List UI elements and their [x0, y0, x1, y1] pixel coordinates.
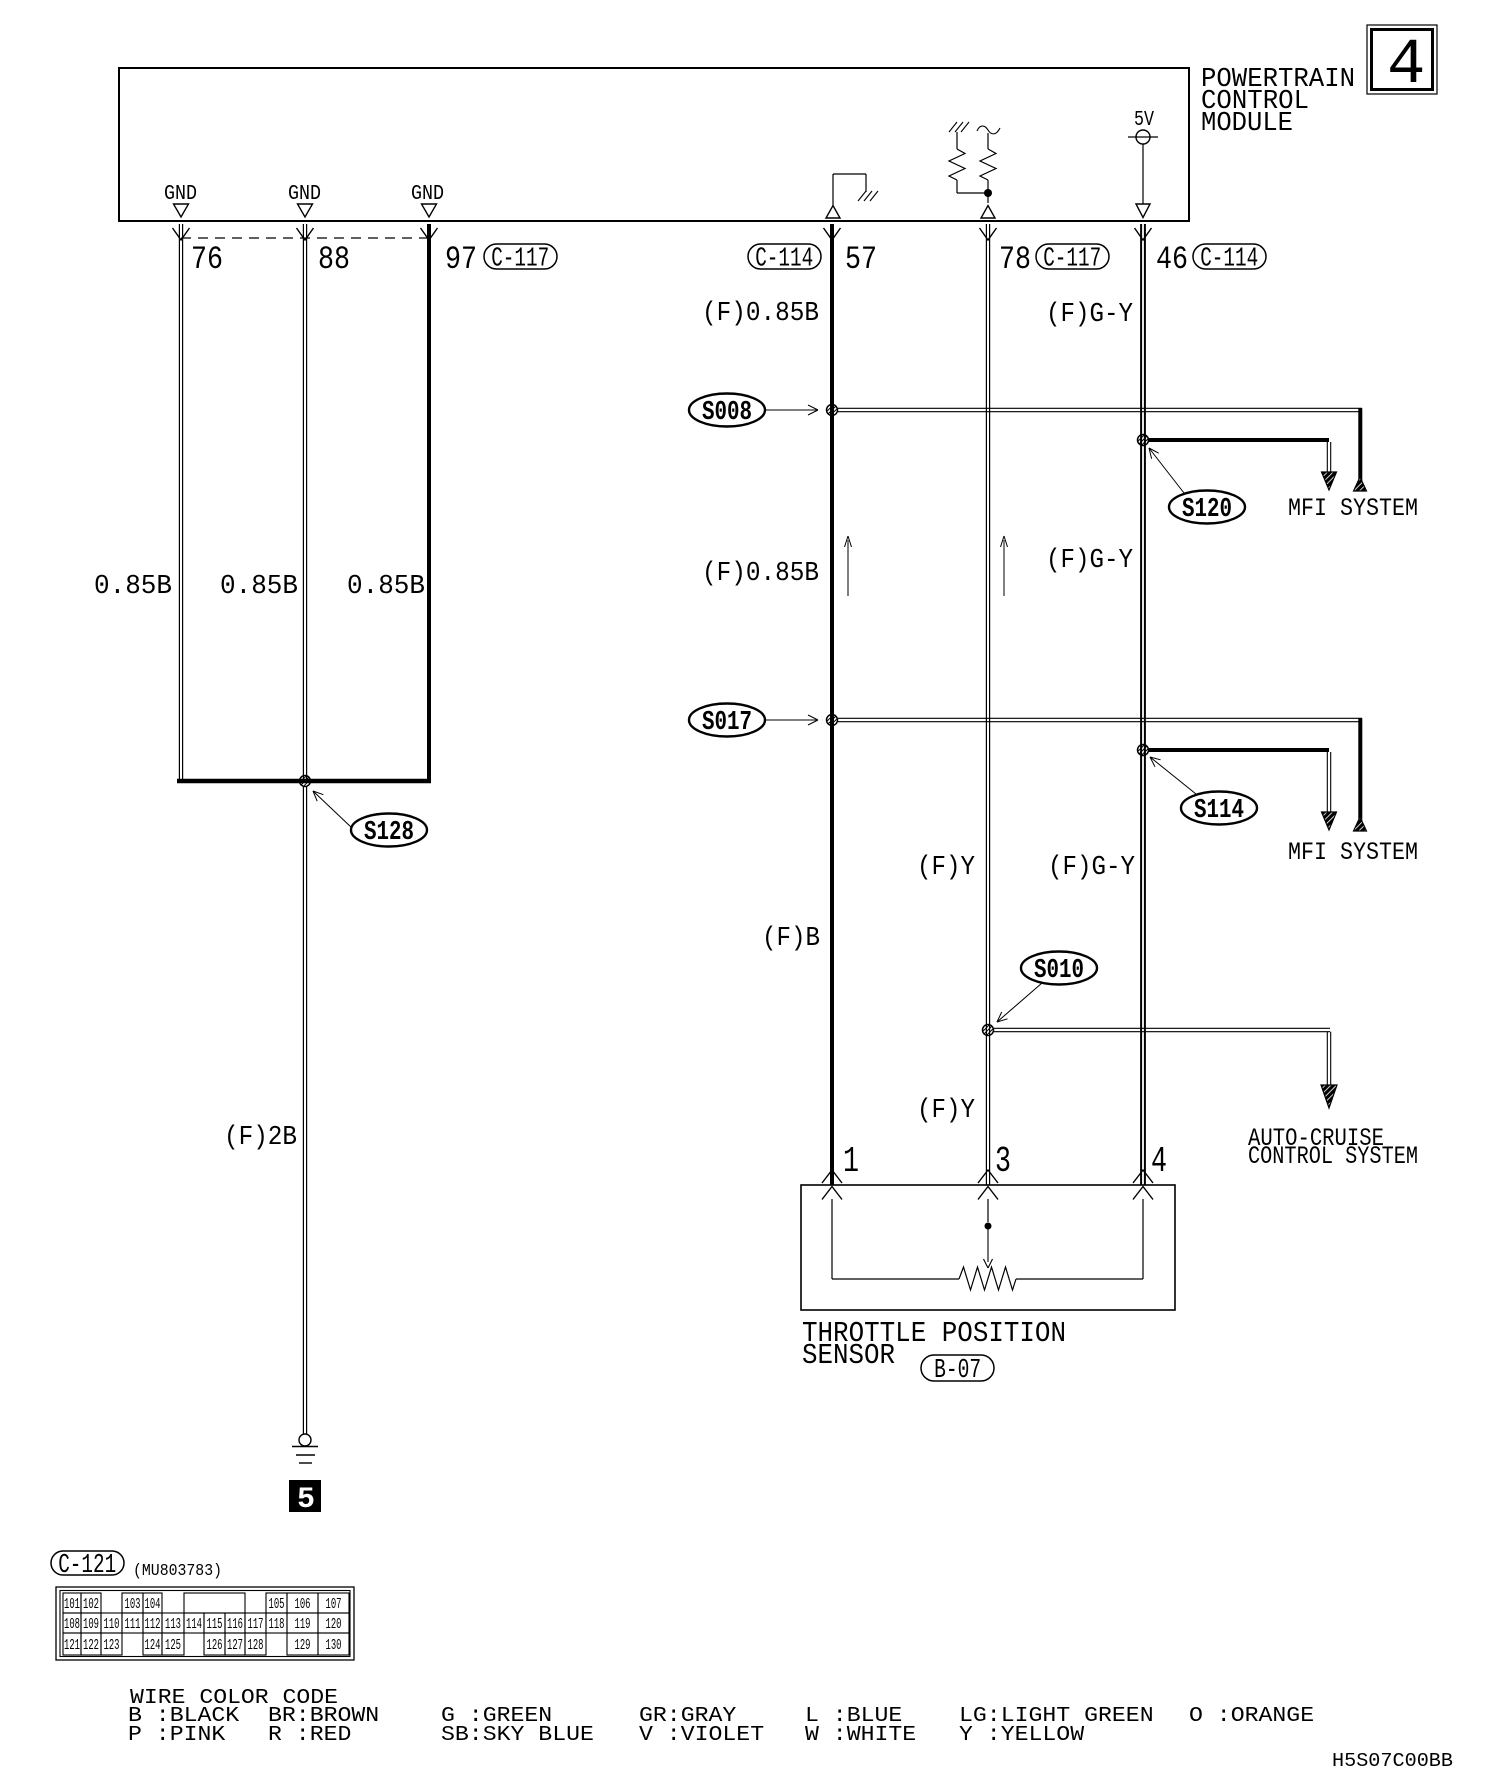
GND triangle at x=305 — [298, 204, 313, 217]
drop S114 — [1326, 752, 1328, 812]
svg-text:C-117: C-117 — [1043, 245, 1101, 275]
svg-text:121: 121 — [64, 1638, 80, 1654]
svg-text:S010: S010 — [1034, 956, 1084, 986]
svg-text:V :VIOLET: V :VIOLET — [639, 1724, 764, 1747]
svg-text:MFI SYSTEM: MFI SYSTEM — [1288, 494, 1418, 523]
svg-text:109: 109 — [83, 1617, 99, 1633]
svg-text:111: 111 — [125, 1617, 141, 1633]
svg-text:(F)G-Y: (F)G-Y — [1046, 546, 1133, 576]
svg-text:120: 120 — [326, 1617, 342, 1633]
TPS internal wire pin3 — [987, 1199, 989, 1222]
wire from S017 to MFI — [838, 717, 1362, 719]
svg-text:GND: GND — [164, 183, 197, 206]
svg-text:76: 76 — [191, 241, 223, 278]
svg-text:S017: S017 — [702, 708, 752, 738]
GND triangle at x=181 — [174, 204, 189, 217]
svg-text:SENSOR: SENSOR — [802, 1339, 895, 1372]
svg-text:108: 108 — [64, 1617, 80, 1633]
splice label S114 — [1181, 792, 1257, 825]
svg-text:1: 1 — [843, 1141, 859, 1182]
S128 leader arrow — [313, 791, 352, 828]
svg-text:R :RED: R :RED — [268, 1724, 351, 1747]
svg-text:119: 119 — [295, 1617, 311, 1633]
svg-text:57: 57 — [845, 241, 877, 278]
splice S010 junction — [983, 1025, 994, 1036]
svg-text:0.85B: 0.85B — [220, 572, 298, 602]
page ref box 5 — [289, 1480, 321, 1512]
svg-text:GND: GND — [411, 183, 444, 206]
svg-text:124: 124 — [145, 1638, 161, 1654]
drop to MFI system — [1358, 408, 1362, 491]
svg-text:116: 116 — [227, 1617, 243, 1633]
svg-text:(F)B: (F)B — [762, 924, 820, 954]
svg-text:106: 106 — [295, 1597, 311, 1613]
svg-text:(MU803783): (MU803783) — [133, 1561, 222, 1580]
ground bus wire — [177, 779, 431, 784]
splice S114 junction — [1138, 745, 1149, 756]
connector symbol at x=181 — [173, 228, 190, 240]
svg-text:97: 97 — [445, 241, 477, 278]
splice label S008 — [689, 394, 765, 427]
splice S120 junction — [1138, 435, 1149, 446]
svg-text:W :WHITE: W :WHITE — [805, 1724, 916, 1747]
page number box 4 — [1367, 25, 1437, 94]
svg-text:102: 102 — [83, 1597, 99, 1613]
svg-text:S120: S120 — [1182, 495, 1232, 525]
svg-text:118: 118 — [269, 1617, 285, 1633]
junction dot — [984, 189, 992, 197]
direction arrow near wire 57 — [847, 540, 849, 596]
internal resistor R-right — [977, 126, 1000, 134]
internal resistor R-left (pullup) — [949, 122, 957, 132]
svg-text:S008: S008 — [702, 398, 752, 428]
TPS wiper stem — [987, 1229, 989, 1262]
svg-text:CONTROL SYSTEM: CONTROL SYSTEM — [1248, 1142, 1418, 1171]
wire S120 to MFI — [1148, 438, 1329, 442]
splice label S128 — [351, 814, 427, 847]
connector symbol at x=429 — [421, 228, 438, 240]
svg-text:105: 105 — [269, 1597, 285, 1613]
direction arrow near wire 78 — [1003, 540, 1005, 596]
wire S010 to auto-cruise — [994, 1027, 1330, 1029]
svg-text:122: 122 — [83, 1638, 99, 1654]
svg-text:5V: 5V — [1134, 109, 1154, 132]
svg-text:114: 114 — [186, 1617, 202, 1633]
svg-text:125: 125 — [165, 1638, 181, 1654]
arrow from MFI system — [1354, 477, 1367, 491]
connector symbol at x=305 — [297, 228, 314, 240]
svg-text:3: 3 — [995, 1141, 1011, 1182]
svg-text:5: 5 — [297, 1483, 315, 1517]
wire pin88 0.85B — [302, 224, 304, 779]
svg-text:101: 101 — [64, 1597, 80, 1613]
splice S128 — [300, 776, 311, 787]
svg-text:128: 128 — [248, 1638, 264, 1654]
svg-text:117: 117 — [248, 1617, 264, 1633]
connector C-117 — [484, 244, 557, 269]
TPS internal wire pin1 — [831, 1199, 833, 1279]
wire from S008 to MFI — [838, 407, 1362, 409]
connector symbol at x=832 — [824, 228, 841, 240]
TPS connector caret below x=832 — [822, 1187, 842, 1200]
S120 leader arrow — [1149, 448, 1184, 493]
TPS junction dot — [985, 1223, 992, 1230]
svg-text:B-07: B-07 — [934, 1356, 981, 1386]
S017 leader arrow — [765, 719, 818, 721]
svg-text:GND: GND — [288, 183, 321, 206]
svg-text:107: 107 — [326, 1597, 342, 1613]
svg-text:130: 130 — [326, 1638, 342, 1654]
svg-text:Y :YELLOW: Y :YELLOW — [959, 1724, 1085, 1747]
svg-text:S114: S114 — [1194, 796, 1244, 826]
arrow to MFI system — [1322, 472, 1337, 490]
internal ground symbol (pin 57) — [826, 206, 840, 219]
powertrain control module box — [119, 68, 1189, 221]
dashed connector line — [181, 237, 429, 239]
TPS resistor — [832, 1278, 959, 1280]
connector C-121 — [51, 1551, 124, 1575]
connector symbol at x=1143 — [1135, 228, 1152, 240]
svg-text:78: 78 — [999, 241, 1031, 278]
svg-text:O :ORANGE: O :ORANGE — [1189, 1705, 1314, 1728]
svg-text:113: 113 — [165, 1617, 181, 1633]
drop to auto-cruise — [1326, 1032, 1328, 1085]
wire S114 to MFI — [1148, 748, 1329, 752]
svg-text:112: 112 — [145, 1617, 161, 1633]
svg-text:4: 4 — [1387, 30, 1425, 102]
svg-text:(F)G-Y: (F)G-Y — [1048, 853, 1135, 883]
svg-text:C-121: C-121 — [58, 1551, 116, 1581]
throttle position sensor box — [801, 1185, 1175, 1310]
TPS connector caret above x=1143 — [1133, 1170, 1153, 1183]
svg-text:(F)G-Y: (F)G-Y — [1046, 300, 1133, 330]
TPS connector caret below x=1143 — [1133, 1187, 1153, 1200]
connector C-114 — [1193, 244, 1266, 269]
svg-text:115: 115 — [207, 1617, 223, 1633]
wire pin57 (F)B thick — [830, 224, 834, 1185]
S114 leader arrow — [1150, 757, 1196, 794]
connector C-114 — [748, 244, 821, 269]
svg-text:C-114: C-114 — [1200, 245, 1258, 275]
TPS connector caret above x=988 — [978, 1170, 998, 1183]
svg-text:(F)Y: (F)Y — [917, 853, 975, 883]
connector B-07 — [921, 1355, 994, 1381]
svg-text:P :PINK: P :PINK — [128, 1724, 226, 1747]
triangle pin 78 internal — [981, 206, 995, 219]
splice S017 junction — [827, 715, 838, 726]
svg-text:S128: S128 — [364, 818, 414, 848]
svg-text:0.85B: 0.85B — [347, 572, 425, 602]
svg-text:(F)0.85B: (F)0.85B — [702, 299, 819, 329]
svg-text:4: 4 — [1151, 1141, 1167, 1182]
S010 leader arrow — [997, 983, 1042, 1022]
splice label S120 — [1169, 491, 1245, 524]
wire pin76 0.85B — [178, 224, 180, 779]
svg-text:123: 123 — [104, 1638, 120, 1654]
drop S120 — [1326, 442, 1328, 472]
svg-text:C-117: C-117 — [491, 245, 549, 275]
svg-text:104: 104 — [145, 1597, 161, 1613]
TPS internal wire pin4 — [1142, 1199, 1144, 1279]
svg-text:103: 103 — [125, 1597, 141, 1613]
arrow from MFI system 2 — [1354, 817, 1367, 831]
ground symbol — [299, 1434, 311, 1446]
connector symbol at x=988 — [980, 228, 997, 240]
GND triangle at x=429 — [422, 204, 437, 217]
svg-text:110: 110 — [104, 1617, 120, 1633]
TPS wiper arrowhead — [984, 1259, 989, 1268]
svg-text:H5S07C00BB: H5S07C00BB — [1332, 1750, 1453, 1772]
wire pin97 0.85B thick — [427, 224, 431, 781]
svg-text:SB:SKY BLUE: SB:SKY BLUE — [441, 1724, 594, 1747]
svg-text:C-114: C-114 — [755, 245, 813, 275]
connector pin table C-121 — [56, 1587, 354, 1660]
arrow to MFI system 2 — [1322, 812, 1337, 830]
connector C-117 — [1036, 244, 1109, 269]
TPS connector caret below x=988 — [978, 1187, 998, 1200]
wire pin46 (F)G-Y — [1140, 224, 1142, 1185]
svg-text:MFI SYSTEM: MFI SYSTEM — [1288, 838, 1418, 867]
svg-text:46: 46 — [1156, 241, 1188, 278]
arrow to auto-cruise — [1321, 1085, 1337, 1108]
svg-text:MODULE: MODULE — [1201, 109, 1293, 139]
wire (F)2B down to ground — [302, 786, 304, 1434]
svg-text:88: 88 — [318, 241, 350, 278]
svg-text:(F)Y: (F)Y — [917, 1096, 975, 1126]
splice S008 junction — [827, 405, 838, 416]
splice label S017 — [689, 704, 765, 737]
drop to MFI system 2 — [1358, 718, 1362, 831]
svg-text:127: 127 — [227, 1638, 243, 1654]
wire pin78 (F)Y — [985, 224, 987, 1185]
TPS connector caret above x=832 — [822, 1170, 842, 1183]
svg-text:129: 129 — [295, 1638, 311, 1654]
splice label S010 — [1021, 952, 1097, 985]
svg-text:0.85B: 0.85B — [94, 572, 172, 602]
svg-text:(F)0.85B: (F)0.85B — [702, 559, 819, 589]
svg-text:126: 126 — [207, 1638, 223, 1654]
svg-text:(F)2B: (F)2B — [224, 1123, 297, 1153]
S008 leader arrow — [765, 409, 818, 411]
